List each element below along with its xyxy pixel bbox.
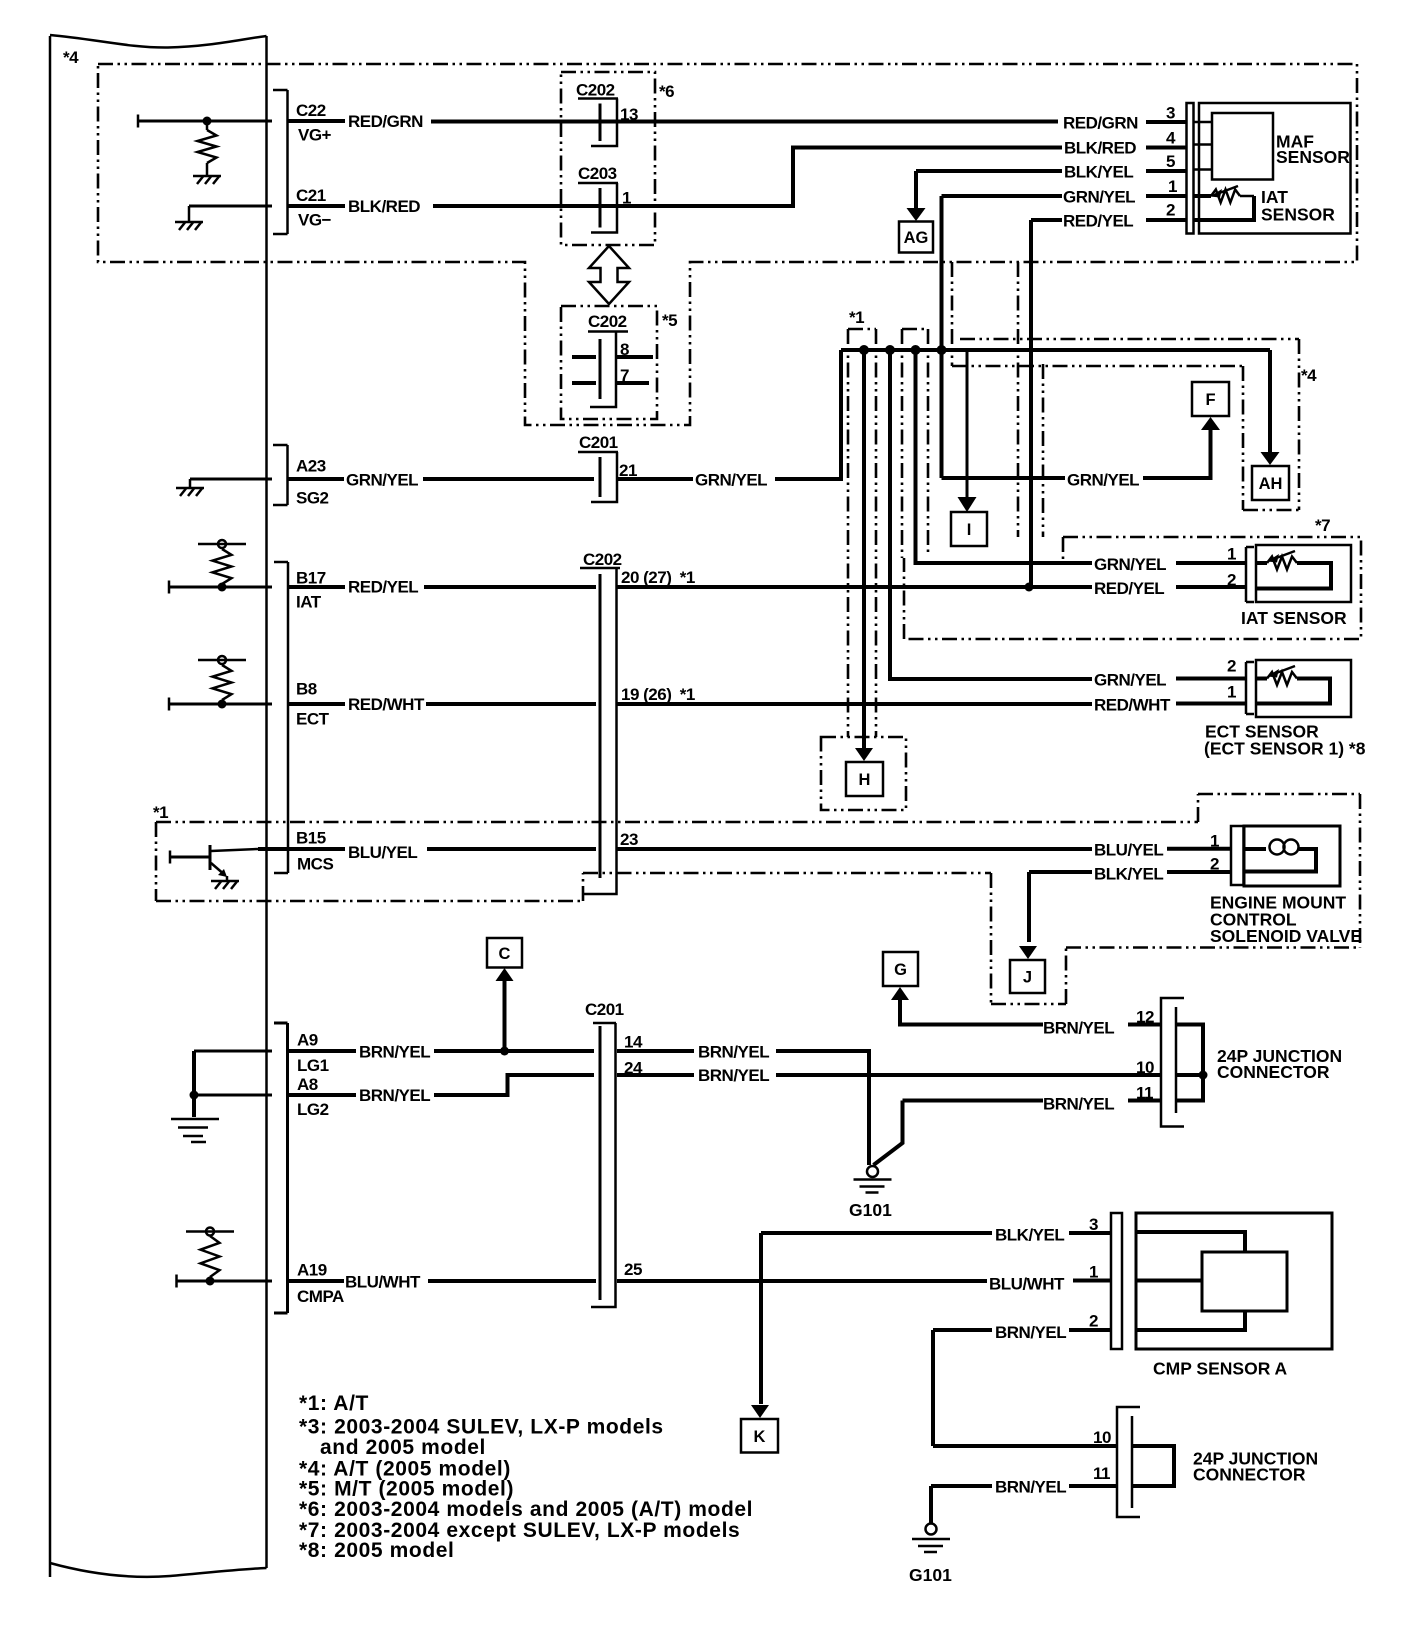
svg-text:B15: B15 (296, 829, 326, 848)
svg-text:*1: A/T: *1: A/T (299, 1392, 369, 1415)
wire CMP pin2 to 24P riser (931, 1330, 935, 1446)
wire C riser (503, 981, 507, 1051)
ground chassis below resistor (193, 175, 221, 178)
ECM/PCM torn-edge band bottom wavy edge (wire) (50, 1563, 267, 1577)
wire pin11 to ground (874, 1101, 1044, 1166)
wire drop to I (966, 350, 969, 499)
wire BLK/RED label segment (288, 204, 345, 208)
svg-text:1: 1 (1227, 545, 1236, 564)
engine mount solenoid box (1244, 826, 1340, 886)
wire BLU/YEL to engine mount (617, 847, 1092, 851)
svg-text:RED/GRN: RED/GRN (348, 112, 423, 131)
IAT thermistor element (1256, 561, 1267, 565)
reference box C (487, 938, 522, 968)
connector bracket A23 (273, 445, 288, 505)
svg-text:*1: *1 (153, 803, 168, 822)
reference box H (846, 762, 883, 796)
ground lead VG- (188, 206, 191, 222)
svg-text:C203: C203 (578, 164, 617, 183)
svg-text:BRN/YEL: BRN/YEL (359, 1043, 430, 1062)
dash-dot tube around IAT GRN/YEL wire (902, 329, 928, 558)
svg-text:14: 14 (624, 1033, 643, 1052)
arrow into G (891, 987, 909, 1000)
ground G101 lower circle (926, 1524, 937, 1535)
svg-text:F: F (1205, 391, 1215, 409)
wire RED/YEL to C202 (424, 585, 596, 589)
svg-text:13: 13 (620, 105, 638, 124)
ECT sensor box (1256, 660, 1351, 717)
svg-text:RED/WHT: RED/WHT (1094, 696, 1171, 715)
wire RED/WHT to C202 (426, 702, 596, 706)
24P junction connector lower (1117, 1407, 1140, 1517)
svg-text:4: 4 (1166, 129, 1176, 148)
svg-text:20 (27) *1: 20 (27) *1 (621, 568, 695, 587)
svg-text:AH: AH (1259, 475, 1283, 493)
ground chassis at SG2 (176, 487, 204, 490)
svg-text:2: 2 (1166, 201, 1175, 220)
pin 7 stubs (572, 381, 596, 385)
svg-text:1: 1 (1168, 177, 1177, 196)
wire RED/GRN label segment (288, 119, 345, 123)
MAF connector bar (1187, 103, 1194, 234)
arrow into J (1019, 946, 1037, 959)
stub tick C22 left end (137, 115, 140, 128)
svg-text:BRN/YEL: BRN/YEL (359, 1086, 430, 1105)
node junction B17 resistor (218, 583, 227, 592)
wire to 24P pin10 bottom (933, 1444, 1117, 1448)
connector C201 pin 21 symbol (578, 451, 618, 454)
connector bracket engine mount (1231, 826, 1244, 885)
svg-text:C: C (499, 945, 511, 963)
wire RED/YEL from pin2 (1031, 218, 1062, 222)
connector C201 multi-pin symbol (593, 1022, 616, 1025)
wire drop to ECT GRN/YEL (890, 350, 1092, 679)
wire stub pin11 (1128, 1099, 1161, 1103)
svg-text:LG2: LG2 (297, 1100, 329, 1119)
wire GRN/YEL to F (942, 476, 1066, 480)
wire BRN/YEL to G101 lower (931, 1484, 992, 1488)
CMP sensor box (1136, 1213, 1332, 1349)
svg-text:(ECT SENSOR 1) *8: (ECT SENSOR 1) *8 (1204, 739, 1366, 759)
svg-text:B17: B17 (296, 569, 326, 588)
wire C22 inside ECM (138, 120, 272, 123)
wire A8 jog to C201 pin24 (434, 1075, 594, 1095)
wire BRN/YEL A9 label segment (289, 1049, 356, 1053)
wire drop to H (862, 350, 866, 748)
svg-text:IAT SENSOR: IAT SENSOR (1241, 608, 1347, 628)
wire stub IAT pin2 (1176, 585, 1246, 589)
bus wire GRN/YEL (841, 348, 1270, 352)
MAF inner element box (1212, 113, 1273, 180)
MAF pin5 inner stub (1194, 168, 1213, 171)
wire GRN/YEL after C201 (618, 477, 693, 481)
connector bracket ECT sensor (1246, 662, 1254, 714)
wire GRN/YEL F riser (1143, 430, 1211, 478)
arrow into H (855, 748, 873, 761)
svg-text:1: 1 (1227, 683, 1236, 702)
ground G101 lower earth (912, 1538, 950, 1541)
double arrow between C203 and C202 (589, 246, 629, 304)
arrow into C (496, 968, 514, 981)
svg-text:*5: *5 (662, 311, 677, 330)
wire BLU/YEL label segment (258, 847, 345, 851)
node junction on C22 wire (203, 117, 212, 126)
svg-text:A8: A8 (297, 1075, 318, 1094)
reference box I (951, 512, 987, 546)
arrow into AG (907, 208, 926, 221)
ground G101 upper earth (854, 1178, 892, 1181)
svg-text:3: 3 (1089, 1215, 1098, 1234)
svg-text:*6: *6 (659, 82, 674, 101)
svg-text:C201: C201 (579, 433, 618, 452)
svg-text:BRN/YEL: BRN/YEL (698, 1043, 769, 1062)
svg-text:BRN/YEL: BRN/YEL (1043, 1095, 1114, 1114)
connector bracket A9-A19 (274, 1023, 288, 1313)
ground G101 upper circle (867, 1166, 878, 1177)
wire stub IAT pin1 (1176, 561, 1246, 565)
CMP pin2 inner wire (1136, 1311, 1245, 1330)
svg-text:BLK/RED: BLK/RED (348, 197, 420, 216)
svg-text:2: 2 (1089, 1312, 1098, 1331)
wire RED/YEL to IAT sensor (617, 585, 1092, 589)
connector bracket B17/B8/B15 (274, 562, 288, 873)
svg-text:A9: A9 (297, 1031, 318, 1050)
wire stub BLK/RED pin4 (1146, 146, 1187, 150)
svg-text:RED/YEL: RED/YEL (1063, 212, 1133, 231)
svg-text:B8: B8 (296, 680, 317, 699)
24P upper internal loop (1177, 1025, 1203, 1101)
wire stub engine pin1 (1167, 847, 1231, 851)
svg-text:C201: C201 (585, 1000, 624, 1019)
wire B8 inside ECM (169, 703, 272, 706)
svg-text:IAT: IAT (296, 593, 322, 612)
svg-text:BLU/YEL: BLU/YEL (1094, 841, 1163, 860)
node junction A8 ground (190, 1091, 199, 1100)
wire drop to AG (914, 171, 918, 209)
svg-text:VG+: VG+ (298, 126, 332, 145)
wire RED/YEL label segment (289, 585, 345, 589)
svg-text:GRN/YEL: GRN/YEL (1094, 671, 1166, 690)
wire BLU/WHT label segment (289, 1279, 344, 1283)
svg-text:1: 1 (622, 189, 631, 208)
svg-text:BLU/YEL: BLU/YEL (348, 843, 417, 862)
svg-text:10: 10 (1136, 1058, 1154, 1077)
transistor collector lead (211, 849, 258, 851)
svg-text:BLU/WHT: BLU/WHT (345, 1273, 421, 1292)
ground chassis at transistor (211, 880, 239, 883)
MAF sensor box (1199, 103, 1351, 234)
IAT thermistor arrow (1218, 186, 1238, 194)
svg-text:*8: 2005 model: *8: 2005 model (299, 1539, 454, 1562)
dash-dot box *5 around C202 (561, 306, 657, 419)
svg-text:A23: A23 (296, 457, 326, 476)
svg-text:2: 2 (1227, 571, 1236, 590)
wire ground drop left (192, 1051, 196, 1117)
svg-text:GRN/YEL: GRN/YEL (1067, 471, 1139, 490)
svg-text:H: H (859, 771, 871, 789)
svg-text:J: J (1023, 969, 1032, 987)
wire stub CMP pin2 (1069, 1328, 1112, 1332)
wire stub BLK/YEL pin5 (1146, 169, 1187, 173)
svg-text:2: 2 (1227, 657, 1236, 676)
wire BLK/YEL CMP segment (761, 1231, 992, 1235)
svg-text:C202: C202 (588, 312, 627, 331)
svg-text:CONNECTOR: CONNECTOR (1193, 1465, 1306, 1485)
svg-text:BRN/YEL: BRN/YEL (995, 1323, 1066, 1342)
wire BRN/YEL A8 label segment (289, 1093, 356, 1097)
wire GRN/YEL to bus riser (775, 350, 841, 479)
stub tick B8 left (168, 698, 171, 711)
node bus junction 1 (859, 345, 869, 355)
svg-text:8: 8 (620, 340, 629, 359)
svg-text:SENSOR: SENSOR (1261, 205, 1335, 225)
connector bracket IAT sensor (1246, 547, 1254, 602)
ECM/PCM torn-edge band right edge (wire) (265, 36, 268, 1568)
wire stub RED/YEL pin2 (1146, 218, 1187, 222)
wire BRN/YEL to G101 riser (776, 1051, 869, 1165)
svg-text:7: 7 (620, 366, 629, 385)
svg-text:25: 25 (624, 1260, 642, 1279)
dash-dot descenders and rails right-middle (952, 262, 1299, 537)
svg-text:CMPA: CMPA (297, 1287, 344, 1306)
connector C202 pin 13 symbol (578, 97, 618, 100)
svg-text:BLK/RED: BLK/RED (1064, 139, 1136, 158)
svg-text:BLK/YEL: BLK/YEL (995, 1226, 1064, 1245)
svg-text:ECT: ECT (296, 710, 330, 729)
node junction A19 resistor (206, 1277, 215, 1286)
CMP inner element box (1202, 1252, 1287, 1311)
connector C203 pin 1 symbol (578, 182, 618, 185)
wire GRN/YEL label segment (288, 477, 344, 481)
connector C202 multi-pin symbol (580, 567, 620, 570)
ECT thermistor arrow (1275, 666, 1295, 674)
24P junction connector upper (1161, 998, 1184, 1127)
wire BLK/YEL engine segment (1029, 870, 1092, 874)
transistor base lead (170, 856, 210, 859)
resistor pull-up B8 (198, 659, 246, 662)
wire RED/GRN to MAF (431, 120, 1058, 124)
dash-dot box *4 top enclosure with notch (98, 64, 1357, 425)
svg-text:A19: A19 (297, 1261, 327, 1280)
svg-text:SOLENOID VALVE: SOLENOID VALVE (1210, 926, 1362, 946)
svg-text:1: 1 (1089, 1263, 1098, 1282)
wire BRN/YEL 14 segment (617, 1049, 694, 1053)
svg-text:RED/YEL: RED/YEL (348, 578, 418, 597)
resistor pull-up B17 (198, 543, 246, 546)
wire stub CMP pin1 (1073, 1279, 1112, 1283)
wire BLK/RED run (433, 148, 1062, 207)
arrow into AH (1261, 452, 1280, 465)
connector C202 pins 8/7 symbol (588, 330, 628, 333)
svg-text:*4: *4 (63, 48, 79, 67)
wire RED/WHT label segment (289, 702, 345, 706)
svg-text:19 (26) *1: 19 (26) *1 (621, 685, 695, 704)
wire stub engine pin2 (1167, 870, 1231, 874)
svg-text:G101: G101 (909, 1565, 952, 1585)
arrow into K (751, 1405, 769, 1418)
node bus junction 2 (885, 345, 895, 355)
svg-text:MCS: MCS (297, 855, 333, 874)
arrow into F (1201, 417, 1220, 430)
stub tick B15 left (169, 851, 172, 864)
reference box AH (1252, 466, 1289, 500)
wire GRN/YEL from pin1 (942, 194, 1063, 198)
svg-text:CONNECTOR: CONNECTOR (1217, 1062, 1330, 1082)
wire GRN/YEL to C201 (423, 477, 594, 481)
reference box J (1010, 960, 1045, 993)
wire A19 inside ECM (177, 1280, 273, 1283)
CMP pin1 inner wire (1136, 1279, 1202, 1283)
wire drop to K (759, 1233, 763, 1404)
wire BRN/YEL CMP segment (933, 1328, 992, 1332)
wire A8 inside ECM (194, 1094, 272, 1097)
svg-text:*7: *7 (1315, 516, 1330, 535)
IAT sensor box (1256, 545, 1351, 602)
arrow into I (958, 497, 977, 512)
node junction A9/C (500, 1047, 509, 1056)
stub tick A19 left (175, 1275, 178, 1288)
24P lower internal loop (1133, 1446, 1174, 1486)
wire B17 inside ECM (169, 586, 272, 589)
wire BLU/YEL to C202 (427, 847, 596, 851)
svg-text:VG−: VG− (298, 211, 332, 230)
pin 8 stubs (572, 355, 596, 359)
ground earth at LG1/LG2 (171, 1118, 219, 1121)
solenoid coil element (1244, 847, 1266, 851)
svg-text:GRN/YEL: GRN/YEL (1094, 555, 1166, 574)
svg-text:LG1: LG1 (297, 1056, 329, 1075)
wire A9 to C201 (434, 1049, 594, 1053)
resistor to ground at VG+ (206, 121, 209, 130)
svg-text:RED/YEL: RED/YEL (1094, 579, 1164, 598)
svg-text:*4: *4 (1301, 366, 1317, 385)
svg-text:C21: C21 (296, 186, 326, 205)
svg-text:12: 12 (1136, 1008, 1154, 1027)
wire stub RED/GRN pin3 (1146, 120, 1187, 124)
svg-text:I: I (967, 521, 972, 539)
svg-text:BLU/WHT: BLU/WHT (989, 1275, 1065, 1294)
reference box G (883, 952, 918, 986)
svg-text:G: G (894, 961, 907, 979)
wire BLU/WHT to C201 (428, 1279, 596, 1283)
node bus junction 4 (937, 345, 947, 355)
svg-text:SENSOR: SENSOR (1276, 147, 1350, 167)
wire BLU/WHT to CMP (617, 1279, 987, 1283)
connector bracket C22/C21 (273, 90, 288, 234)
wire stub pin12 (1128, 1023, 1161, 1027)
transistor emitter lead with arrow (211, 863, 222, 873)
wire A9 inside ECM (194, 1050, 272, 1053)
svg-text:GRN/YEL: GRN/YEL (346, 471, 418, 490)
wire BRN/YEL 24 segment (617, 1073, 694, 1077)
svg-text:2: 2 (1210, 855, 1219, 874)
stub tick B17 left (168, 581, 171, 594)
svg-text:C202: C202 (576, 81, 615, 100)
wire stub ECT pin2 (1176, 677, 1246, 681)
MAF pin3 inner stub (1194, 121, 1213, 124)
dash-dot channel around AH box (1243, 339, 1299, 510)
node junction 24P loop (1199, 1071, 1208, 1080)
IAT thermistor arrow 2 (1275, 551, 1295, 559)
svg-text:GRN/YEL: GRN/YEL (1063, 188, 1135, 207)
svg-text:BLK/YEL: BLK/YEL (1094, 865, 1163, 884)
svg-text:SG2: SG2 (296, 489, 329, 508)
wire bus to AH (1268, 350, 1272, 453)
ground chassis at VG- (175, 221, 203, 224)
svg-text:RED/WHT: RED/WHT (348, 695, 425, 714)
ECM/PCM torn-edge band left edge (wire) (49, 36, 52, 1577)
wire drop to IAT GRN/YEL (916, 350, 1093, 563)
MAF pin4 inner stub (1194, 143, 1213, 146)
svg-text:G101: G101 (849, 1200, 892, 1220)
svg-text:23: 23 (620, 830, 638, 849)
svg-text:GRN/YEL: GRN/YEL (695, 471, 767, 490)
svg-text:3: 3 (1166, 104, 1175, 123)
wire stub CMP pin3 (1069, 1231, 1112, 1235)
resistor pull-up A19 (186, 1230, 234, 1233)
reference box F (1192, 382, 1229, 416)
svg-text:11: 11 (1093, 1464, 1110, 1483)
svg-text:*1: *1 (849, 308, 864, 327)
node junction B8 resistor (218, 700, 227, 709)
wire SG2 ground lead (190, 478, 272, 481)
svg-text:K: K (754, 1428, 766, 1446)
wire riser RED/YEL from MAF pin2 (1029, 220, 1033, 587)
svg-text:5: 5 (1166, 152, 1175, 171)
wire BRN/YEL to pin10 (776, 1073, 1161, 1077)
wire stub pin11 bottom (1069, 1484, 1117, 1488)
ECT thermistor element (1256, 677, 1267, 681)
dash-dot box *6 around C202/C203 (561, 72, 655, 245)
node bus junction 3 (911, 345, 921, 355)
svg-text:BRN/YEL: BRN/YEL (995, 1478, 1066, 1497)
CMP pin3 inner wire (1136, 1232, 1245, 1252)
CMP connector bar (1111, 1213, 1122, 1349)
wire BLK/YEL to AG (916, 169, 1062, 173)
svg-text:*6: 2003-2004 models and 2005: *6: 2003-2004 models and 2005 (A/T) mode… (299, 1498, 753, 1521)
svg-text:10: 10 (1093, 1428, 1111, 1447)
svg-text:CMP SENSOR A: CMP SENSOR A (1153, 1359, 1288, 1379)
svg-text:C202: C202 (583, 550, 622, 569)
reference box K (741, 1419, 778, 1453)
svg-text:BLK/YEL: BLK/YEL (1064, 163, 1133, 182)
svg-text:BRN/YEL: BRN/YEL (1043, 1019, 1114, 1038)
wire riser GRN/YEL MAF pin1 (940, 196, 944, 478)
IAT thermistor inside MAF (1194, 194, 1212, 198)
dash-dot band around B15/engine-mount circuit (*1/*3) (156, 794, 1360, 1004)
wire stub ECT pin1 (1176, 702, 1246, 706)
wire RED/WHT to ECT sensor (617, 702, 1092, 706)
dash-dot box *7 around IAT sensor (904, 537, 1361, 639)
svg-text:BRN/YEL: BRN/YEL (698, 1066, 769, 1085)
dash-dot enclosure around H box (821, 737, 906, 810)
svg-text:C22: C22 (296, 101, 326, 120)
ECM/PCM torn-edge band top wavy edge (wire) (50, 35, 267, 48)
svg-text:AG: AG (904, 229, 929, 247)
wire G to junction 12 (900, 1000, 1043, 1025)
wire C21 inside ECM (189, 205, 272, 208)
wire BLK/YEL drop to J (1027, 872, 1031, 942)
reference box AG (899, 222, 933, 253)
wire stub GRN/YEL pin1 (1146, 194, 1187, 198)
svg-text:and 2005 model: and 2005 model (320, 1436, 486, 1459)
svg-text:1: 1 (1210, 832, 1219, 851)
svg-text:RED/GRN: RED/GRN (1063, 114, 1138, 133)
transistor Q MCS base bar (209, 845, 212, 870)
dash-dot tube *1 around H-wire (848, 329, 876, 737)
node junction RED/YEL riser (1025, 583, 1034, 592)
